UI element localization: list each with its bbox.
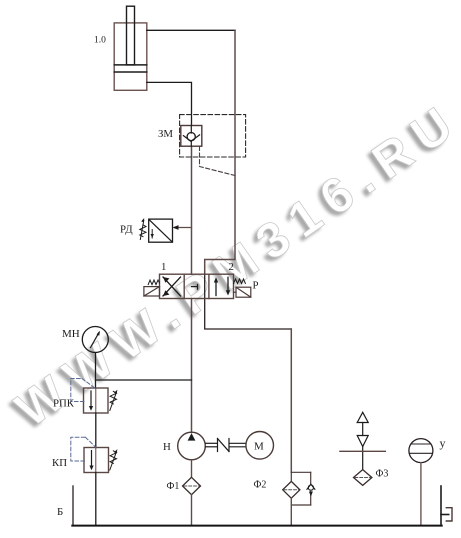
wire valve to pump: [191, 299, 193, 433]
gauge MN: [82, 327, 108, 353]
spring of RD: [140, 225, 146, 237]
check valve ZM dashed enclosure: [180, 115, 246, 157]
breather F3: [357, 412, 368, 469]
motor M: [246, 432, 274, 460]
wire bottom port: [147, 82, 192, 125]
wire MN stem: [95, 353, 97, 389]
valve position 2 parallel arrows: [216, 277, 228, 295]
tank top line at F3: [340, 450, 386, 452]
wire into F2 diamond: [290, 472, 292, 481]
drain port: [441, 486, 449, 526]
wire right vertical line: [205, 30, 235, 274]
bypass check valve: [307, 484, 315, 496]
cylinder rod: [127, 6, 135, 65]
watermark WWW.РМ316.RU: [8, 93, 461, 435]
svg-text:РПК: РПК: [53, 398, 75, 410]
adjust arrow of KP: [110, 452, 117, 470]
svg-text:2: 2: [229, 261, 234, 273]
svg-text:МН: МН: [62, 328, 80, 340]
svg-text:Н: Н: [163, 441, 171, 453]
svg-text:КП: КП: [52, 457, 67, 469]
filter of F3: [354, 470, 372, 486]
valve centre position blocked ports: [192, 285, 198, 290]
level gauge U: [409, 439, 433, 463]
pressure switch RD: [149, 219, 173, 242]
adjust arrow of RPK: [110, 392, 117, 410]
wire F1 to tank: [191, 495, 193, 526]
svg-text:М: М: [254, 441, 264, 453]
svg-text:Ф2: Ф2: [254, 480, 267, 491]
tank port B: [72, 486, 74, 526]
wire through valve to tank return: [205, 274, 292, 329]
pilot line of RPK: [71, 379, 96, 402]
spring left: [148, 280, 159, 285]
relief valve KP: [84, 448, 109, 473]
cylinder piston: [114, 65, 147, 72]
wire RPK to KP: [95, 413, 97, 448]
wire branch to main line: [96, 379, 192, 381]
svg-text:Ф1: Ф1: [167, 481, 180, 492]
svg-text:Б: Б: [57, 506, 63, 518]
svg-text:1.0: 1.0: [94, 36, 106, 46]
filter F1: [183, 477, 201, 494]
pump N: [178, 432, 206, 460]
wire check valve to main line: [191, 146, 193, 274]
svg-text:РД: РД: [120, 224, 133, 236]
svg-text:1: 1: [161, 261, 166, 273]
spring of KP: [110, 451, 116, 464]
spring of RPK: [110, 391, 116, 404]
svg-text:ЗМ: ЗМ: [158, 128, 173, 140]
svg-text:Р: Р: [253, 280, 259, 292]
svg-text:Ф3: Ф3: [376, 469, 389, 480]
pilot line of KP: [71, 437, 96, 461]
wire KP to tank: [95, 473, 97, 526]
wire U to tank: [420, 463, 422, 526]
shaft coupling: [206, 439, 246, 452]
pilot line of ZM: [200, 147, 236, 176]
check valve ZM: [181, 126, 202, 147]
wire return vertical to filter F2: [290, 329, 292, 472]
directional valve R body: [160, 274, 234, 298]
svg-text:у: у: [440, 436, 446, 450]
valve position 1 crossed arrows: [163, 277, 181, 296]
wire F2 to tank: [290, 498, 292, 525]
wire pump to filter F1: [191, 460, 193, 478]
spring right: [234, 279, 246, 284]
drain plug bracket: [446, 508, 452, 521]
cylinder 1.0 body: [114, 23, 147, 90]
adjust arrow of RD: [140, 220, 144, 239]
filter F2: [283, 481, 300, 498]
relief valve RPK: [84, 388, 109, 413]
solenoid right: [234, 287, 251, 297]
bypass loop of F2: [291, 472, 310, 505]
solenoid left: [144, 287, 160, 296]
wire RD tap with arrowhead: [175, 227, 192, 229]
wire top port to right vertical: [147, 29, 235, 31]
tank bottom line: [72, 525, 441, 527]
